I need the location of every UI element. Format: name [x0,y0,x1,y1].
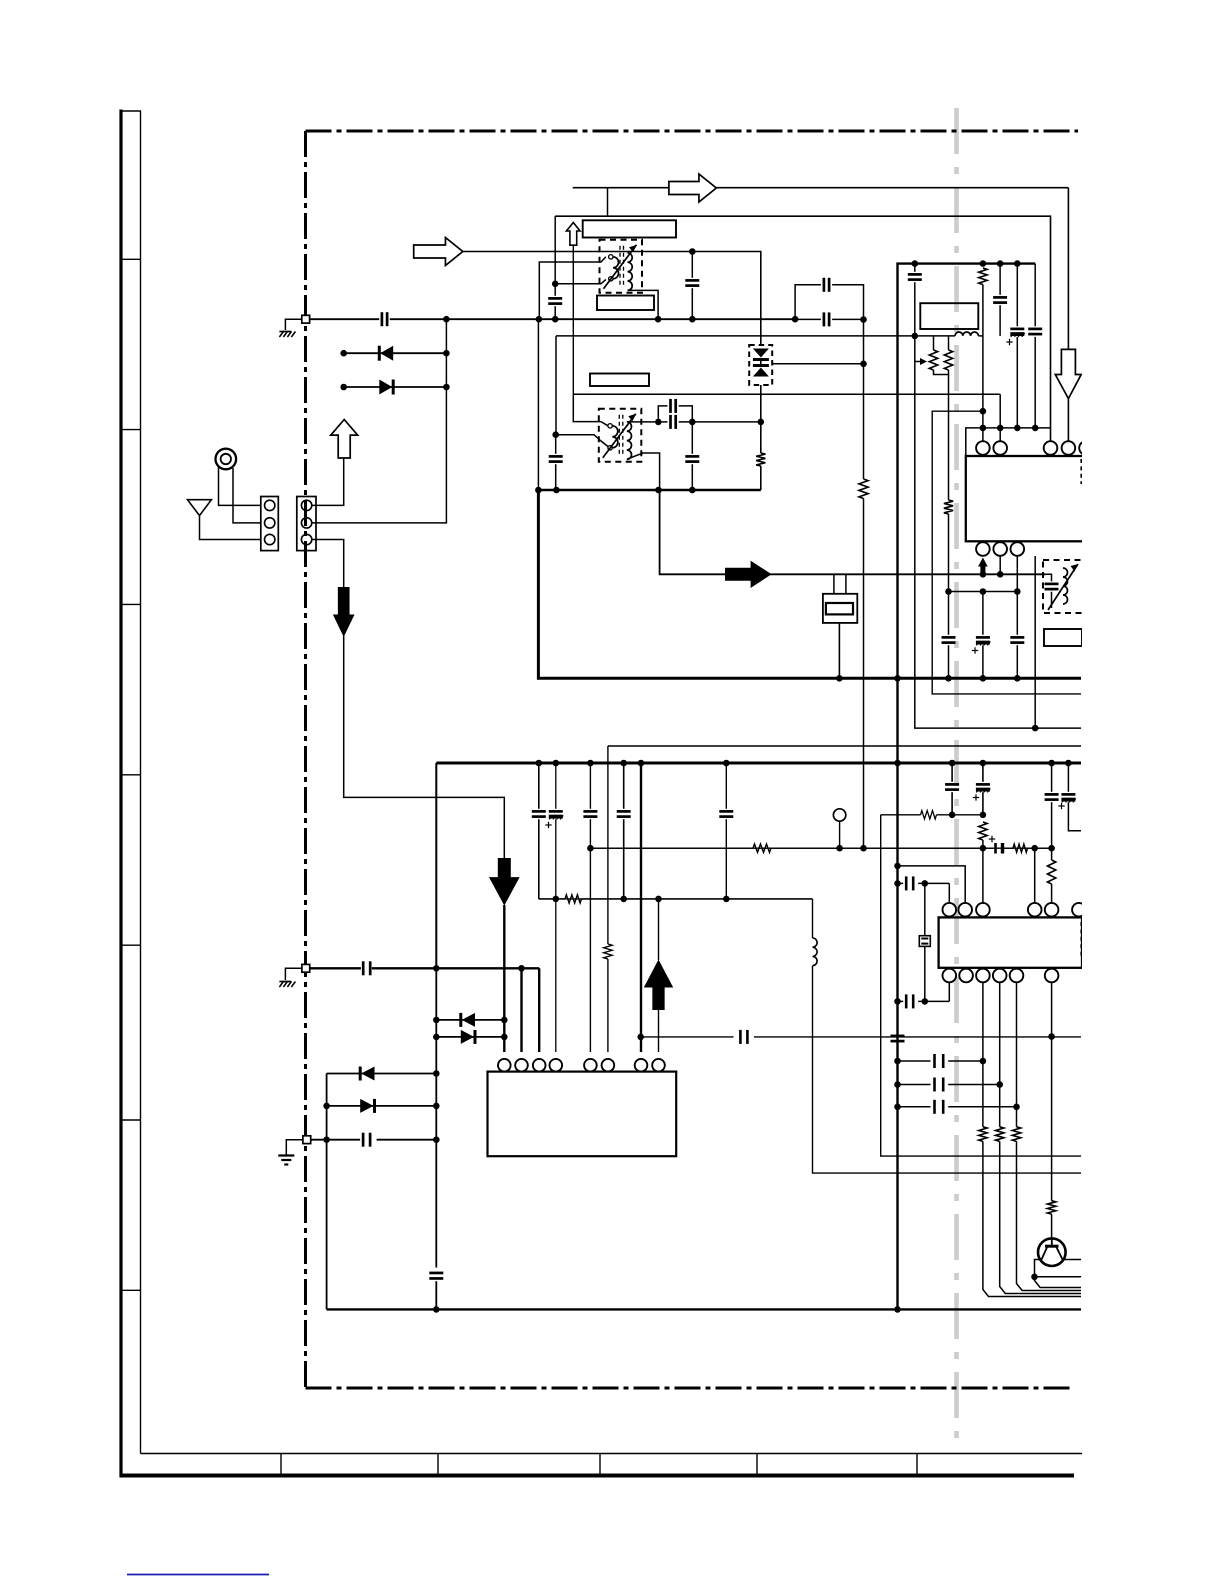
node dot x952/Y815 [949,812,956,819]
plus mark C27 [1058,805,1064,807]
hollow arrow osc up [566,223,580,246]
node dot pin6 branch [1048,1033,1055,1040]
wire x863 vertical [863,320,865,480]
pcb edge terminal E2 [285,968,302,980]
capacitor C19 electrolytic [549,810,563,813]
connector CN1 pins [265,500,275,510]
wire Y1001 xtal bottom [948,982,950,1001]
wire x983 mid [982,336,984,441]
wire x948 down [948,375,950,501]
node dot x1035/Y728 [1032,725,1039,732]
wire cap row3 [898,1106,931,1108]
wire x812 inductor branch [812,899,814,938]
wire x590 to IC3 [589,848,591,1052]
wire Y336 to x983 [978,335,983,337]
connector CN2 housing [297,497,316,551]
capacitor C21 [617,810,631,813]
capacitor C27 electrolytic [1061,793,1075,796]
solid arrow AM mix down [489,858,520,906]
wire x641 to IC3 [640,763,642,1052]
wire U1 pin4 down [1034,556,1036,728]
capacitor C14 [942,636,956,639]
bus wire y490 [536,489,761,492]
node dot x898 bottom [894,1306,901,1313]
plus mark C15 [972,650,978,652]
node dot x590/Y848 [587,845,594,852]
wire Q1 emitter [1063,1259,1082,1261]
capacitor C12 electrolytic [1010,328,1024,331]
antenna jack J1 [216,449,237,470]
capacitor C7 lower parallel [669,415,672,429]
wire varactor tap [772,363,863,365]
ground chassis at E1 [279,332,283,338]
capacitor C4 [548,297,562,300]
board dash-dot border top [306,130,1079,133]
wire jack ring to connector pin2 [233,468,261,523]
wire T2 primary bottom feed [556,435,608,447]
wire AM mix to IC3 pin1 [503,905,505,1052]
node dot x983/Y815 [980,812,987,819]
diode D5 [461,1030,474,1044]
plus mark C25 [973,797,979,799]
resistor R11 inline [921,811,937,819]
node dot TP1 [836,845,843,852]
page frame left thick border [119,110,122,1478]
IC U2 edge cut dashes [1080,922,1082,958]
node dot Y336 x914 [912,333,919,340]
wire RF to T1 secondary [463,251,693,253]
resistor R1 inline x863 [859,479,868,499]
wire Y591 caps row [949,591,1018,593]
capacitor C17 in T3 [1045,583,1059,586]
node dot Y968 x521 [518,965,525,972]
wire Y848 AGC [590,847,1051,849]
node dot x983 y411 [980,408,987,415]
capacitor C5 [685,279,699,282]
wire x658 osc out [660,490,1046,574]
pcb edge terminal E3 [286,1140,303,1156]
blue footer underline [127,1574,269,1576]
label box L5 [1044,629,1082,646]
capacitor C18 [532,810,546,813]
plus mark C12 [1006,341,1012,343]
diode D6 [361,1067,374,1081]
capacitor C2 upper parallel [795,285,821,319]
wire x812 to Y1173 [813,966,1082,1174]
wire arrow to IC3 pin8 [658,1008,660,1052]
IC U2 top pins [943,903,957,917]
capacitor C11 [993,296,1007,299]
board dash-dot border left [304,131,307,1388]
wire Y428 IC1 top bus [966,428,1051,456]
wire Y746 [608,745,1081,747]
wire T2 primary top feed [573,394,608,426]
wire Y968 corner to IC3 pin3 [538,968,540,1052]
wire Y394 long [573,393,1000,395]
plus mark C19 [545,824,551,826]
varactor D3 dashed box [749,345,772,385]
hollow arrow W1 right [669,174,716,202]
wire diode row lower [344,386,447,388]
wire Q1 base branch [1035,1260,1042,1277]
node dot C5 top [689,248,696,255]
capacitor C10 [908,273,922,276]
diode D7 [360,1099,373,1113]
wire Y422 to varactor line [692,421,761,423]
wire varactor to resistor [760,385,762,453]
wire Y336 long [555,336,557,435]
node dots row3 [894,1104,901,1111]
label box L3 [590,374,649,387]
wire bus after C1 [390,318,795,320]
crystal X1 leads [833,574,835,594]
wire x863 lower [863,499,865,849]
node dot Y866 [894,863,901,870]
node dot Y422 x761 [758,419,765,426]
wire CN2 pin1 to FM feed [312,458,344,505]
wire Y899 [539,898,813,900]
resistor R12 [979,822,987,840]
wire diode row4 [436,1036,504,1038]
wire Y848 AGC [590,847,753,849]
node dot X1 gnd [836,675,843,682]
pcb edge terminal E1 [285,319,302,330]
wire T2 secondary top [628,421,659,423]
resistor R8 inline [1013,844,1028,852]
capacitor C9 [685,455,699,458]
label box L4 ceramic filter [920,303,978,329]
wire Y394 drop to IC1 pin2 [999,394,1001,441]
wire x1034 bend [1035,1277,1082,1288]
wire x983 to IC2 pin3 [982,848,984,903]
wire x539 to bus678 corner [538,490,1081,678]
page frame left inner line [140,111,142,1454]
wire osc arrow tail [572,245,574,394]
transistor Q1 [1038,1238,1066,1266]
solid arrow IF right [725,561,772,588]
node dots FM rail [912,260,919,267]
node dot Y848 x1034 [1031,845,1038,852]
crystal X2 [924,883,926,935]
node dots D2 row [340,384,347,391]
wire W2 vert left [554,216,556,284]
solid arrow U1 pin out [978,558,988,575]
node dots bus763 [536,760,543,767]
test point TP1 [833,809,845,821]
IC U2 body [939,917,1082,967]
node dot Y848 x1051 [1048,845,1055,852]
wire x521 to IC3 pin2 [520,968,522,1052]
resistor R15 [999,1085,1001,1127]
wire after arrow to IC1 pin [1067,398,1069,441]
wire CN2 pin2 to AM node [312,319,446,523]
varactor D3 top diode [753,349,769,358]
wire C5 leads [691,252,693,278]
resistor R2 [756,453,765,466]
node dots row2 [894,1081,901,1088]
node dot Y1140 x326 [323,1136,330,1143]
node dots D7 [323,1103,330,1110]
IC U1 top pins [976,441,990,455]
wire Y336 horizontal [556,335,955,337]
IC U3 top pins [498,1059,511,1072]
capacitor C8 [549,455,563,458]
node dot x436 bottom [433,1306,440,1313]
wire CN2 pin3 down [312,540,344,588]
capacitor C34 series [739,1030,742,1044]
node dot bus x658 [655,316,662,323]
IC U1 body [966,456,1116,541]
node dot D6 right [433,1070,440,1077]
node dot bus-C1/diode [443,316,450,323]
wire x326 [326,1074,328,1310]
wire x1034 to IC2 pin4 [1034,848,1036,903]
wire U1 pin3 stub [1016,556,1018,592]
capacitor C36 series [362,1133,365,1147]
capacitor C3 lower parallel [823,312,826,326]
wire Y883 xtal top [898,882,904,884]
wire x436 lower [435,968,437,1267]
node dot bus x692 [689,316,696,323]
label box L2 [597,296,654,311]
label box L1 [583,220,676,237]
node dot bus x539 [536,316,543,323]
node dot diode tap x863 [860,361,867,368]
inductor L6 [813,938,818,966]
varactor D3 bottom diode [753,364,769,367]
wire W2 second signal [555,216,1050,441]
wire T1 secondary bottom [628,290,659,319]
node dot Y1140 x436 [433,1136,440,1143]
capacitor C16 [1010,636,1024,639]
resistor R6 [944,500,953,514]
node dots Y428 [980,425,987,432]
gray fold dash-dot line [954,108,959,1448]
capacitor C15 electrolytic [976,636,990,639]
T3 adjust arrow [1048,564,1078,610]
wire W1 top signal [573,187,1069,189]
node dot Q1 base [1031,1274,1038,1281]
wire Y968 [310,967,361,969]
wire FM rail top [898,264,1036,1310]
wire varactor through [760,360,762,366]
hollow arrow down to IC1 [1055,349,1081,398]
node dots Y899 [553,896,560,903]
wire jack tip to connector pin1 [219,466,261,505]
capacitor C13 [1028,328,1042,331]
bottom bus wire [327,1308,1081,1310]
T3 coil arcs [1063,568,1068,604]
wire U1 pin2 stub [999,556,1001,574]
node dots Y591 [945,588,952,595]
wire T2 secondary bottom [628,453,660,490]
plus mark C23 [989,838,995,840]
resistor R3 [979,268,987,285]
node dot T2 sec top [655,419,662,426]
wire diode row3 [436,1019,504,1021]
capacitor C6 upper parallel [658,406,667,422]
wire AM feed to mixer [344,636,505,858]
wire X1 to gnd bus [838,623,840,678]
wire C8 leads [555,435,557,454]
wire R6 to caps row [948,514,950,592]
IC U1 bottom pins [976,542,990,556]
capacitor C23 electrolytic inline [994,843,997,854]
node dots gnd bus 678 [894,675,901,682]
page frame bottom strip dividers [280,1454,282,1476]
right edge whiteout [1082,0,1224,1584]
wire C19 down to IC3 [555,899,557,1052]
wire x538 upper [537,319,539,490]
node dot pin1/Y574 [980,571,987,578]
transformer T1 [600,240,643,293]
bus wire y763 [436,762,1081,765]
node dots row1 [894,1058,901,1065]
wire x914 down [915,336,1081,728]
wire RF to varactor [692,252,761,345]
hollow arrow FM ant up [331,420,358,459]
wire x607 upper [607,746,609,944]
wire diode row5 [327,1073,437,1075]
wire C9 leads [691,422,693,454]
wire W1-W2 tap [607,188,609,217]
wire rail gap fix [897,1033,899,1044]
resistor R10 on x607 [604,944,612,959]
node dot T2 primary [552,431,559,438]
node dot x863 bus [860,316,867,323]
node dot x863/Y848 [860,845,867,852]
wire R17 to Q1 [1051,1214,1053,1239]
node dot bus x795 [792,316,799,323]
wire diode row6 [327,1105,437,1107]
connector CN1 housing [261,497,279,551]
capacitor C28 inline [905,876,908,890]
wire Y815 divider [881,814,921,816]
wire Y411 branch [932,411,1081,694]
ground chassis at E2 [279,982,283,988]
wire C4 leads [554,286,556,295]
IC U3 body [488,1072,677,1157]
capacitor C29 inline [905,994,908,1008]
wire AM antenna bus [310,318,380,320]
wire diode row upper [344,352,447,354]
wire bus763 left drop [435,763,437,968]
solid arrow AM feed down [333,587,355,637]
page frame ruler ticks [121,258,141,260]
capacitor C1 series [381,312,384,326]
wire Y1036 long [641,1036,734,1038]
wire Y899 [539,898,565,900]
page frame bottom inner line [141,1453,1086,1455]
ground earth at E3 [278,1154,294,1156]
inductor FL1 coil [955,332,978,336]
resistor R7 inline [753,844,771,852]
wire T1 primary bottom feed [555,280,606,284]
wire x658 arrow branch [658,899,660,960]
node dot Y968 x436 [433,965,440,972]
wire Y866 [898,866,966,903]
diode D2 [379,380,392,395]
diode D4 [462,1013,475,1027]
capacitor C32 [933,1078,936,1092]
hollow arrow RF right [414,238,463,266]
capacitor C26 [1045,793,1059,796]
node dot C7 right [689,419,696,426]
resistor R14 [982,1061,984,1127]
wire Y1140 [311,1139,360,1141]
wire C37 to bottom [435,1281,437,1309]
node dot W2/T1 lower [552,281,559,288]
wire x880 down [881,815,1081,1156]
capacitor C37 inline [429,1272,443,1275]
capacitor C33 [933,1100,936,1114]
wire U2 pin6 to R17 [1051,1037,1053,1201]
IC U2 bottom pins [943,969,957,983]
IC U1 edge cut dashes [1080,459,1082,484]
node dots bus490 [535,487,542,494]
crystal X1 body [823,594,857,623]
wire Y574 to T3 [1046,574,1052,581]
resistor R13 [1047,860,1055,884]
node dot pin2/Y574 [997,571,1004,578]
wire cap row1 [898,1060,931,1062]
wire X2 bottom [924,946,926,1001]
capacitor C22 [719,810,733,813]
antenna symbol ANT [188,500,212,516]
capacitor C30 inline rail [891,1035,905,1038]
capacitor C31 [933,1054,936,1068]
pointer arrow discr [915,361,920,363]
transformer T3 dashed box [1043,560,1083,613]
resistor R16 [1016,1107,1018,1127]
capacitor C24 [945,783,959,786]
solid arrow AM IF up [644,960,673,1011]
page frame top-left corner tie [120,110,142,112]
page frame bottom thick border [120,1474,1075,1478]
node dot Y848 x983 [980,845,987,852]
node dots Y883 [894,880,901,887]
resistor R4 discr left [933,336,935,350]
wire U2 pin6 down [1051,982,1053,1037]
board dash-dot border bottom [306,1387,1074,1390]
node dots Y1001 [894,998,901,1005]
node dot bus x555 [552,316,559,323]
node dot Y1036 x641 [637,1034,644,1041]
capacitor C25 electrolytic [976,783,990,786]
wire cap row2 [898,1084,931,1086]
wire R2 to bus [760,466,762,490]
node dots D5 [433,1034,440,1041]
wire Y1277 [1035,1276,1082,1278]
node dots D4 [433,1017,440,1024]
capacitor C35 series [362,961,365,975]
diode D1 [380,346,393,361]
resistor R17 [1047,1201,1055,1214]
node dots D1 row [340,350,347,357]
wire discr bottoms [934,370,949,375]
connector CN2 pins [301,500,311,510]
resistor R5 discr right [948,336,950,350]
resistor R9 inline [565,895,582,903]
wire W1 drop to IC1 [1067,188,1069,349]
capacitor C20 [583,810,597,813]
wire T1 primary top feed [539,257,606,319]
transformer T2 [599,409,642,462]
